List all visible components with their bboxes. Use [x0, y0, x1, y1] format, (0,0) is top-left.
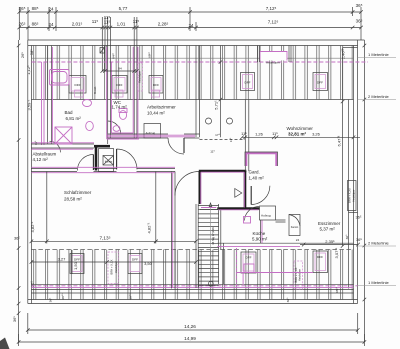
meterline labels — [368, 52, 389, 285]
svg-text:DFF: DFF — [153, 83, 159, 87]
2 meterline top — [31, 99, 353, 101]
eaves lines bottom — [28, 300, 358, 304]
right vertical dimension / eaves extension line — [363, 40, 367, 342]
svg-text:14,99: 14,99 — [184, 336, 196, 341]
svg-text:Wohnzimmer: Wohnzimmer — [287, 126, 314, 131]
svg-text:5,71⁵: 5,71⁵ — [213, 100, 218, 110]
toilet WC — [119, 109, 127, 120]
hall columns circles — [206, 118, 233, 124]
svg-text:84²⁵: 84²⁵ — [112, 52, 116, 58]
DFF roof window bottom 1 (Schlafzimmer west) — [70, 254, 84, 274]
svg-text:88⁵: 88⁵ — [32, 22, 39, 27]
small dim cluster near hall — [210, 137, 233, 153]
svg-text:Gard.: Gard. — [249, 170, 260, 175]
stair walk line with start circle — [210, 204, 212, 282]
svg-text:1 Meterlinie: 1 Meterlinie — [368, 280, 389, 285]
svg-text:2 Meterlinie: 2 Meterlinie — [368, 241, 389, 246]
svg-text:11⁵: 11⁵ — [133, 19, 140, 24]
DFF roof window bottom 5 (Esszimmer) — [313, 251, 328, 273]
shower — [55, 127, 72, 144]
wall: Schlafzimmer north (corridor south) — [31, 169, 175, 172]
pink trace bathroom west — [51, 47, 53, 142]
stairs east wall — [219, 204, 221, 284]
svg-text:DFF: DFF — [317, 81, 323, 85]
room label Bad — [65, 110, 82, 121]
wall: WC west — [108, 46, 111, 145]
svg-text:3,59⁷⁵: 3,59⁷⁵ — [27, 99, 32, 110]
interior dim line Schlafzimmer 7,13 — [30, 240, 198, 244]
svg-text:6,81 m²: 6,81 m² — [66, 116, 82, 121]
svg-text:1,26: 1,26 — [255, 131, 264, 136]
svg-text:Kamin: Kamin — [291, 225, 299, 229]
svg-text:DFF: DFF — [245, 256, 251, 260]
wall: Schlafzimmer east — [172, 172, 176, 289]
room label Esszimmer — [318, 221, 341, 232]
svg-text:3,26: 3,26 — [312, 131, 321, 136]
wall: Bad west — [48, 46, 52, 145]
1 meterline bottom (pink dashed) — [31, 285, 357, 287]
top dimension line row 2 — [18, 17, 363, 71]
svg-text:Heizköper: Heizköper — [351, 189, 355, 201]
svg-text:88⁵: 88⁵ — [32, 6, 39, 11]
Küche east wall pink — [261, 220, 263, 243]
Aufzug shaft bottom — [260, 206, 276, 220]
vent square on top wall — [100, 48, 105, 54]
Wohnzimmer west wall upper (core east) — [245, 100, 249, 172]
radiator top (Wohnzimmer, horizontal) — [258, 46, 292, 65]
svg-text:7,13⁵: 7,13⁵ — [99, 235, 110, 240]
door arc: Schlafzimmer — [117, 149, 137, 169]
svg-text:Abstellraum: Abstellraum — [33, 152, 57, 157]
svg-text:11⁵: 11⁵ — [92, 19, 99, 24]
bathtub — [50, 70, 70, 86]
svg-text:1,40 m²: 1,40 m² — [249, 176, 265, 181]
svg-text:10,44 m²: 10,44 m² — [147, 110, 165, 115]
door arc: Gard — [251, 186, 270, 205]
niche wall pink U in Wohnzimmer — [246, 153, 276, 166]
room label WC — [112, 100, 128, 110]
door arc: WC — [108, 121, 121, 134]
svg-text:7,12⁵: 7,12⁵ — [268, 20, 279, 25]
svg-text:36⁵: 36⁵ — [49, 297, 53, 302]
interior dim line Wohnzimmer — [240, 136, 360, 140]
toilet Bad — [86, 121, 94, 130]
wall: Arbeitszimmer east / core west upper — [196, 46, 200, 138]
svg-text:4,82⁷⁵: 4,82⁷⁵ — [147, 222, 152, 233]
dashed line hall north — [200, 139, 246, 141]
Schlafzimmer lower dim texts — [58, 257, 153, 266]
Wohnzimmer dim texts — [241, 131, 321, 136]
svg-text:32,81 m²: 32,81 m² — [288, 132, 307, 137]
DFF roof window top 5 (Wohnzimmer east) — [313, 73, 328, 91]
eaves line top — [28, 39, 365, 41]
Gard direction triangle — [235, 189, 242, 198]
svg-text:Heizköper: Heizköper — [138, 71, 142, 83]
svg-text:3,50: 3,50 — [144, 261, 153, 266]
svg-text:Heizköper: Heizköper — [114, 261, 118, 273]
Küche Esszimmer south wall line — [217, 242, 353, 244]
pink wall traces core — [201, 172, 259, 210]
svg-text:4,12 m²: 4,12 m² — [33, 157, 49, 162]
svg-text:Heizköper: Heizköper — [266, 61, 280, 65]
radiator bottom middle (stair hall) — [294, 261, 303, 289]
svg-text:36⁵: 36⁵ — [345, 234, 349, 239]
door arc: Abstellraum — [77, 155, 93, 171]
vertical dim Schlafzimmer west 4,82 — [14, 140, 47, 243]
outer wall top — [28, 45, 358, 47]
svg-text:24: 24 — [296, 238, 300, 242]
svg-text:2,46²³: 2,46²³ — [341, 48, 346, 59]
svg-text:DFF: DFF — [116, 83, 122, 87]
svg-text:24: 24 — [188, 23, 194, 28]
svg-text:BRH + X,XX: BRH + X,XX — [110, 259, 114, 274]
svg-text:1 Meterlinie: 1 Meterlinie — [368, 52, 389, 57]
svg-text:3,07⁷⁵: 3,07⁷⁵ — [334, 247, 339, 258]
left dimension rotated texts — [12, 49, 35, 322]
svg-text:5,37 m²: 5,37 m² — [320, 227, 336, 232]
Aufzug shaft top — [144, 124, 161, 139]
2 meterline bottom (dashed) — [31, 249, 353, 251]
DFF roof window bottom 2 (Schlafzimmer east) — [128, 254, 142, 274]
svg-text:11⁵: 11⁵ — [272, 131, 278, 136]
svg-text:3,27: 3,27 — [58, 257, 67, 262]
bottom dimension line row 2 (14,99) — [17, 334, 366, 346]
small rotated dims top interior — [93, 51, 152, 94]
roof slope rafter band top — [31, 46, 353, 100]
svg-text:68⁹⁵: 68⁹⁵ — [128, 293, 132, 300]
small vertical dim at DFF bottom 1 — [72, 250, 78, 274]
Küche east wall — [260, 220, 262, 243]
DFF roof window top 3 (Arbeitszimmer) — [149, 76, 163, 94]
1 meterline top (grey) — [31, 57, 353, 59]
room label Abstellraum — [33, 152, 57, 163]
svg-text:1,50: 1,50 — [73, 261, 78, 270]
door arc: hall to Wohnzimmer — [175, 172, 199, 196]
svg-text:2,01⁵: 2,01⁵ — [72, 22, 83, 27]
wall: WC east — [134, 46, 137, 139]
DFF roof window bottom 4 (Küche) — [241, 252, 256, 273]
svg-text:11⁵: 11⁵ — [229, 137, 233, 142]
stairs west wall — [196, 204, 198, 288]
svg-text:7,12⁵: 7,12⁵ — [266, 6, 277, 11]
stair treads — [198, 206, 218, 286]
svg-text:Esszimmer: Esszimmer — [318, 221, 341, 226]
top dimension line row 1 — [18, 7, 363, 40]
pink dashed riser line — [236, 248, 238, 288]
svg-text:11⁵: 11⁵ — [104, 19, 111, 24]
svg-text:68¹⁵: 68¹⁵ — [335, 286, 339, 292]
wall: Bad south — [31, 144, 94, 148]
svg-text:11⁵: 11⁵ — [241, 131, 247, 136]
1 meterline top (pink dashed) — [31, 61, 368, 63]
svg-text:5,90 m²: 5,90 m² — [252, 236, 268, 241]
vertical dim Schlafzimmer east 4,82 — [147, 172, 158, 244]
svg-text:DFF: DFF — [244, 81, 250, 85]
radiator pink Küche under DFF — [243, 264, 254, 285]
door arc: Arbeitszimmer — [168, 138, 184, 154]
room label Wohnzimmer — [287, 126, 314, 137]
svg-text:5,77: 5,77 — [119, 6, 128, 11]
bottom knee wall lines — [31, 284, 353, 293]
scan artifact bottom-left corner — [0, 338, 10, 349]
svg-text:94: 94 — [118, 67, 122, 71]
meterline right stubs and labels — [358, 58, 397, 286]
pink connect line bottom right — [237, 272, 314, 274]
Kamin chimney block — [94, 146, 114, 171]
Gard / stair core box — [199, 171, 247, 210]
svg-text:28,58 m²: 28,58 m² — [64, 197, 82, 202]
svg-text:68¹⁵: 68¹⁵ — [148, 51, 152, 57]
Küche door arc — [245, 206, 260, 220]
right dimension rotated texts — [341, 48, 363, 242]
svg-text:BRH + X,XX: BRH + X,XX — [294, 267, 298, 282]
svg-text:Bad: Bad — [65, 110, 74, 115]
small rotated dims bottom interior — [49, 234, 349, 302]
left vertical dimension line — [17, 40, 21, 342]
niche wall black outline — [245, 152, 278, 166]
pink strip west of Bad wall — [42, 62, 45, 145]
svg-text:36⁵: 36⁵ — [286, 297, 290, 302]
door arc: Bad — [49, 141, 60, 152]
svg-text:24: 24 — [48, 22, 54, 27]
svg-text:11⁵: 11⁵ — [210, 150, 215, 154]
svg-text:4,82⁷⁵: 4,82⁷⁵ — [30, 221, 35, 232]
room label Küche — [252, 231, 268, 242]
svg-text:Heizköper: Heizköper — [297, 269, 301, 281]
svg-text:16 Stg 17,9/26: 16 Stg 17,9/26 — [211, 227, 215, 245]
svg-text:Schlafzimmer: Schlafzimmer — [64, 190, 92, 195]
pink radiator marks below top DFF windows — [75, 90, 160, 97]
radiator top (WC wall, vertical) — [138, 63, 143, 91]
top dimension row 1 texts — [19, 3, 363, 11]
window cluster dim line above WC — [101, 69, 139, 73]
interior vertical dim Wohnzimmer east — [334, 48, 358, 259]
room label Gard — [249, 170, 265, 181]
svg-text:11⁵: 11⁵ — [34, 140, 38, 145]
svg-text:DFF: DFF — [132, 258, 138, 262]
interior dim line Schlafzimmer lower — [30, 260, 198, 264]
vertical dim line hall west 5,71 — [213, 46, 222, 138]
svg-text:24: 24 — [48, 7, 54, 12]
roof slope rafter band bottom — [31, 250, 353, 300]
svg-text:36⁵: 36⁵ — [19, 6, 26, 11]
svg-text:Kamin: Kamin — [105, 160, 113, 164]
svg-text:36⁵: 36⁵ — [355, 215, 361, 220]
DFF roof window top 1 (Bad) — [69, 76, 86, 94]
svg-text:26⁵: 26⁵ — [20, 52, 25, 58]
Kamin bottom (Esszimmer) — [289, 215, 300, 236]
pink wall traces corridor/Schlafzimmer — [31, 135, 195, 288]
svg-text:1,01: 1,01 — [117, 22, 126, 27]
dim 2,35 Esszimmer — [300, 239, 360, 247]
svg-text:Restl.: Restl. — [93, 86, 97, 94]
room label Schlafzimmer — [64, 190, 92, 202]
washbasin Bad — [83, 100, 92, 107]
svg-text:DFF: DFF — [74, 258, 80, 262]
svg-text:36⁵: 36⁵ — [356, 19, 363, 24]
Küche sink pink — [244, 217, 251, 224]
Küche north wall — [217, 207, 259, 210]
svg-text:36⁵: 36⁵ — [12, 316, 17, 322]
svg-text:DFF: DFF — [317, 255, 323, 259]
svg-text:1,12⁵: 1,12⁵ — [26, 65, 31, 75]
svg-text:36⁵: 36⁵ — [356, 237, 362, 242]
svg-text:36⁵: 36⁵ — [14, 236, 20, 241]
radiator right wall (Wohnzimmer east) — [348, 181, 357, 211]
svg-text:14,26: 14,26 — [184, 324, 196, 329]
svg-text:68⁹⁵: 68⁹⁵ — [61, 293, 65, 300]
svg-text:1,74 m²: 1,74 m² — [112, 105, 128, 110]
DFF roof window top 2 (WC) — [112, 76, 127, 94]
svg-text:6,47⁷⁶: 6,47⁷⁶ — [337, 135, 342, 146]
washbasin WC — [113, 126, 120, 132]
svg-text:Aufzug: Aufzug — [261, 214, 271, 218]
svg-text:26⁵: 26⁵ — [19, 22, 26, 27]
svg-text:2 Meterlinie: 2 Meterlinie — [368, 94, 389, 99]
left gable wall — [28, 40, 32, 304]
pink wall traces WC — [107, 47, 139, 139]
svg-text:2,28⁵: 2,28⁵ — [158, 22, 169, 27]
wall: WC + Arbeitszimmer south (corridor north) — [108, 134, 200, 138]
svg-text:Aufzug: Aufzug — [146, 131, 156, 135]
room label Arbeitszimmer — [147, 105, 176, 116]
svg-text:DFF: DFF — [74, 83, 80, 87]
svg-text:Arbeitszimmer: Arbeitszimmer — [147, 105, 176, 110]
DFF roof window top 4 (Wohnzimmer west) — [241, 73, 255, 91]
bottom dimension line row 1 (14,26) — [26, 313, 360, 334]
svg-text:BRH + X,XX: BRH + X,XX — [348, 188, 352, 203]
svg-text:2,35⁵: 2,35⁵ — [325, 239, 335, 244]
svg-text:36⁵: 36⁵ — [356, 3, 363, 8]
svg-text:Küche: Küche — [253, 231, 266, 236]
top dimension row 2 texts — [19, 15, 363, 28]
svg-text:17⁸: 17⁸ — [215, 133, 220, 137]
radiator bottom left (Schlafzimmer) — [108, 252, 119, 284]
wall line east of stairs — [223, 243, 225, 284]
right gable wall — [354, 40, 358, 304]
